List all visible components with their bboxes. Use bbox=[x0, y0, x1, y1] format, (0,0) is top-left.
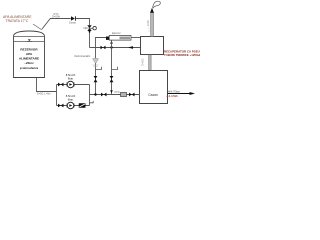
boiler box CAZAN bbox=[140, 71, 168, 104]
valve V9 bbox=[129, 93, 135, 97]
branch 1 wire bbox=[57, 84, 90, 86]
wire header y48 bbox=[90, 47, 141, 49]
svg-text:APA: APA bbox=[26, 52, 33, 56]
valve VEM (motorized, vertical) bbox=[87, 25, 91, 31]
vent stub A bbox=[96, 67, 102, 70]
tank seam line bbox=[14, 36, 45, 38]
recuperator box E1 bbox=[141, 37, 164, 55]
valve V8 bbox=[101, 93, 107, 97]
flow arrow down on line B bbox=[110, 90, 113, 93]
tank T1 rezervor apa alimentare bbox=[14, 31, 45, 78]
valve V7 bbox=[58, 104, 64, 108]
junction dot J2 bbox=[94, 93, 96, 95]
ejector suction arrow bbox=[110, 41, 113, 44]
svg-text:Cazan: Cazan bbox=[148, 93, 158, 97]
tank top nozzle pipe bbox=[42, 19, 71, 30]
level mark bbox=[28, 39, 31, 41]
main feed wire y94 bbox=[90, 94, 141, 96]
svg-text:TRATATA 17°C: TRATATA 17°C bbox=[6, 19, 29, 23]
strainer F2 on branch 2 bbox=[79, 104, 85, 108]
tank bottom outlet wire bbox=[37, 78, 57, 92]
pump discharge vertical bbox=[89, 85, 91, 106]
svg-text:Ejector: Ejector bbox=[112, 31, 122, 35]
valve V6 bbox=[58, 83, 64, 87]
label recuperator (red) bbox=[164, 50, 205, 57]
svg-text:Dezmineraliz.: Dezmineraliz. bbox=[75, 54, 92, 58]
chimney side marks bbox=[148, 28, 150, 31]
ejector outlet wire to recuperator bbox=[131, 37, 141, 39]
svg-text:D=50; L=5m: D=50; L=5m bbox=[37, 92, 51, 95]
funnel drain bbox=[93, 58, 99, 63]
svg-text:8.5mc/h: 8.5mc/h bbox=[66, 73, 76, 77]
wire VEM valve down bbox=[89, 31, 91, 48]
junction below VEM bbox=[89, 31, 91, 33]
svg-text:Dosat: Dosat bbox=[69, 20, 76, 24]
pump tee vertical bbox=[56, 85, 58, 106]
drain line A (x95.5) bbox=[95, 48, 97, 95]
svg-text:6bar: 6bar bbox=[68, 98, 73, 102]
vent stub B bbox=[112, 67, 118, 70]
svg-text:8.5mc/h: 8.5mc/h bbox=[66, 94, 76, 98]
svg-text:TUBURI TERMICE +1250uK: TUBURI TERMICE +1250uK bbox=[164, 53, 200, 57]
boiler outlet arrow bbox=[168, 93, 191, 95]
svg-text:~20mc: ~20mc bbox=[24, 61, 34, 65]
flow arrow (left) on y48 bbox=[128, 46, 133, 49]
drain stub at discharge bbox=[90, 101, 94, 103]
svg-text:2x3m: 2x3m bbox=[147, 20, 150, 26]
strainer F1 bbox=[121, 92, 127, 96]
svg-text:NTC: NTC bbox=[115, 91, 120, 94]
pipe label NTC D=50A bbox=[52, 12, 60, 19]
vent pennant bbox=[153, 1, 161, 8]
wire ejector feed riser bbox=[96, 38, 107, 48]
pump P2 label bbox=[66, 94, 76, 101]
valve V5 (vertical) on line B bbox=[110, 76, 114, 82]
pump P1 bbox=[66, 83, 68, 87]
svg-text:6bar: 6bar bbox=[68, 76, 73, 80]
svg-text:D=100: D=100 bbox=[142, 58, 145, 66]
svg-text:VEN: VEN bbox=[83, 26, 88, 30]
chimney tip (black) bbox=[150, 8, 154, 13]
tank text bbox=[19, 48, 39, 71]
node label APA ALIMENTARE TRATATA (red) bbox=[3, 15, 32, 23]
valve V4 (vertical) on line A bbox=[94, 76, 98, 82]
tank level line bbox=[14, 41, 45, 43]
pump P1 label bbox=[66, 73, 76, 80]
pipe recuperator to boiler bbox=[149, 55, 152, 71]
wire from check valve to VEM valve bbox=[76, 19, 90, 26]
chimney stack bbox=[151, 13, 154, 37]
valve V3 on y48 bbox=[101, 46, 106, 50]
junction dot J1 bbox=[110, 46, 112, 48]
svg-text:4t/h 70bar: 4t/h 70bar bbox=[168, 89, 180, 93]
pump P2 bbox=[66, 104, 68, 108]
svg-text:p=atmosferica: p=atmosferica bbox=[20, 66, 39, 70]
suction line B (x111.5) bbox=[111, 40, 113, 95]
leader line from label to tank bbox=[33, 24, 42, 30]
svg-text:ALIMENTARE: ALIMENTARE bbox=[19, 56, 39, 60]
svg-text:3.3-4.5t/h: 3.3-4.5t/h bbox=[167, 94, 179, 98]
branch 2 wire bbox=[57, 105, 90, 107]
svg-text:REZERVOR: REZERVOR bbox=[20, 48, 38, 52]
check valve CV1 bbox=[71, 16, 75, 20]
svg-text:D=50A: D=50A bbox=[52, 15, 60, 19]
